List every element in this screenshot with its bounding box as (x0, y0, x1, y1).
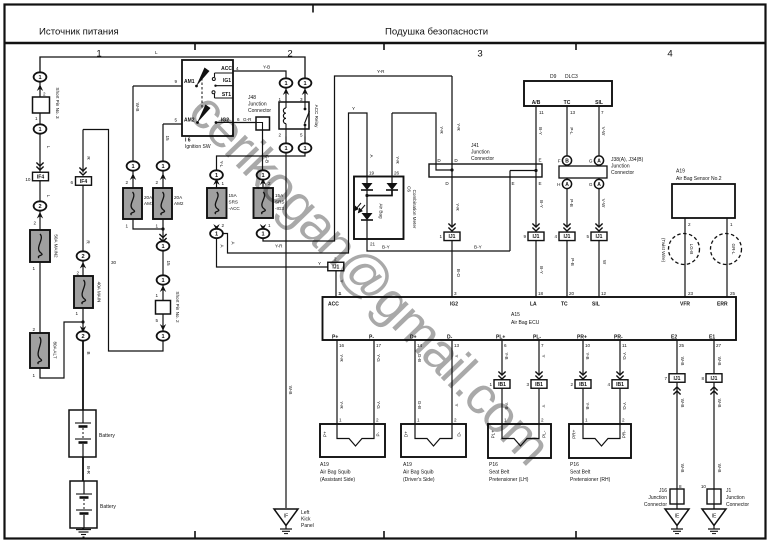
wire net E branch inside J41 (510, 170, 536, 172)
wire node 1 to node 1 above Short Pin No.2 (162, 251, 164, 276)
svg-text:80A ALT: 80A ALT (53, 341, 58, 358)
chevron below IJ1 E1 (710, 387, 717, 395)
connector IJ1 on E2 wire (664, 374, 685, 383)
svg-text:Air Bag: Air Bag (379, 203, 384, 219)
wire P-B: junction to IJ1 (566, 189, 568, 228)
svg-text:D9: D9 (550, 74, 557, 80)
svg-text:Connector: Connector (726, 502, 749, 508)
svg-text:4: 4 (554, 234, 557, 239)
svg-text:Junction: Junction (726, 495, 745, 501)
svg-text:Connector: Connector (644, 502, 667, 508)
combination meter C6 box (354, 177, 404, 240)
svg-text:Y-B: Y-B (504, 352, 509, 359)
ECU bottom pin labels (332, 335, 715, 341)
wire Y: IJ1 to ECU pin ACC (335, 271, 337, 297)
svg-text:10: 10 (701, 484, 707, 489)
arrow into relay node bottom left (283, 144, 289, 151)
svg-text:Y-R: Y-R (275, 244, 283, 249)
svg-text:Y-R: Y-R (439, 126, 444, 134)
wire W-B: IJ1 to ground via J1 (713, 382, 715, 509)
wire 20A AM1 pin 1 to junction (133, 219, 163, 229)
ignition switch I6 box (182, 60, 233, 136)
air bag sensor No.2 box (672, 184, 735, 218)
svg-text:P-L: P-L (569, 127, 574, 135)
wire 20A AM2 pin 1 down to node 1 (162, 219, 164, 242)
svg-text:V-W: V-W (601, 127, 606, 136)
node 1 above 20A AM1 (127, 161, 140, 170)
svg-text:C6: C6 (407, 186, 412, 192)
svg-text:B-R: B-R (86, 466, 91, 475)
wire W-B: ECU E2 to IJ1 (676, 340, 678, 374)
arrow into node SRS-ACC (213, 178, 219, 185)
svg-text:2: 2 (81, 254, 84, 260)
svg-text:L: L (155, 50, 158, 55)
svg-text:8: 8 (679, 484, 682, 489)
fusible link 80A ALT (30, 333, 49, 368)
Short Pin No.2 box (156, 301, 171, 315)
svg-text:Seat Belt: Seat Belt (489, 470, 510, 476)
J41 node letters (437, 158, 541, 187)
connector IJ1 on SIL wire (586, 232, 607, 241)
svg-text:1: 1 (96, 49, 101, 60)
arrow into node 1 AM1 (130, 173, 136, 180)
svg-text:IJ1: IJ1 (674, 376, 681, 382)
wire L: node 1 top-left to ACC relay pin 3 (40, 57, 305, 79)
air bag ECU A15 box (323, 297, 737, 340)
svg-text:E1: E1 (709, 335, 715, 341)
svg-text:W-B: W-B (680, 357, 685, 366)
wire GR-L: air bag sensor pin 1 to ECU pin ERR (726, 218, 728, 297)
wire through J16 (676, 489, 678, 504)
svg-text:-ACC: -ACC (229, 206, 241, 211)
svg-text:Air Bag Squib: Air Bag Squib (320, 470, 351, 476)
svg-text:7: 7 (541, 343, 544, 348)
wire relay node to ACC relay contact pin 3 (304, 88, 306, 96)
svg-text:A: A (597, 182, 601, 188)
svg-text:1: 1 (161, 334, 164, 340)
svg-text:6: 6 (504, 343, 507, 348)
svg-text:27: 27 (716, 343, 722, 348)
svg-text:Short Pin No. 3: Short Pin No. 3 (55, 87, 60, 119)
wire Y-B: ECU PL+ to IB1 (501, 340, 503, 376)
svg-text:IJ1: IJ1 (596, 234, 603, 240)
svg-text:1: 1 (222, 181, 225, 186)
ECU bottom pin numbers (339, 343, 722, 348)
wire ACC relay pin 5 to node (304, 137, 306, 144)
svg-text:PL-: PL- (533, 335, 541, 341)
wire Y-G: IB1 to pretensioner RH (619, 384, 621, 424)
wire Short Pin No.2 to node 1 (162, 314, 164, 332)
chevron into IJ1 IG2 (448, 224, 455, 232)
svg-text:P16: P16 (570, 462, 579, 468)
svg-text:1: 1 (131, 164, 134, 170)
node 1 below 15A SRS-ACC (210, 229, 223, 238)
svg-text:20: 20 (569, 291, 575, 296)
svg-text:9: 9 (523, 234, 526, 239)
svg-text:Y-R: Y-R (339, 401, 344, 409)
svg-text:Junction: Junction (248, 102, 267, 108)
svg-text:AM2: AM2 (174, 201, 184, 206)
svg-text:Junction: Junction (648, 495, 667, 501)
svg-text:Подушка безопасности: Подушка безопасности (385, 27, 488, 38)
svg-text:Y-B: Y-B (263, 65, 270, 70)
node 2 left column (34, 201, 47, 210)
wire B-Y: DLC3 A/B through J41 to IJ1 (535, 106, 537, 228)
svg-text:IE: IE (675, 514, 680, 520)
wire W-B: IJ1 to ground via J16 (676, 382, 678, 509)
connector IJ1 on E1 wire (701, 374, 722, 383)
svg-text:Y-R: Y-R (377, 69, 385, 74)
DLC3 pin numbers (539, 110, 604, 115)
svg-text:4: 4 (236, 66, 239, 71)
svg-text:Kick: Kick (301, 517, 311, 523)
svg-text:40A MAIN: 40A MAIN (97, 282, 102, 303)
svg-text:2: 2 (222, 223, 225, 228)
svg-text:P-B: P-B (570, 258, 575, 266)
wire AM2 horizontal into ignition switch (163, 123, 182, 125)
junction dot net E in J41 (534, 169, 537, 172)
svg-text:Seat Belt: Seat Belt (570, 470, 591, 476)
svg-text:A/B: A/B (532, 100, 541, 106)
svg-text:1: 1 (439, 234, 442, 239)
svg-text:B-Y: B-Y (474, 245, 482, 250)
wire 50A MAIN2 to 80A ALT (39, 262, 41, 333)
ECU top pin numbers (339, 291, 607, 296)
wire through J38 junction connector right (598, 165, 600, 180)
wire AM1 horizontal into ignition switch (133, 85, 182, 87)
arrow into node SRS-IG3 (260, 178, 266, 185)
svg-text:23: 23 (688, 291, 694, 296)
node 1 short pin column top (157, 241, 170, 250)
svg-text:PR+: PR+ (572, 429, 577, 438)
wire lamp to meter pin 21 (366, 220, 368, 239)
svg-text:11: 11 (622, 343, 627, 348)
chevron into IJ1 SIL (595, 224, 602, 232)
svg-text:4: 4 (607, 382, 610, 387)
svg-text:2: 2 (454, 418, 457, 423)
svg-text:GR-L: GR-L (731, 244, 736, 255)
svg-text:Y-R: Y-R (339, 354, 344, 362)
seat belt pretensioner LH box (488, 424, 551, 458)
air bag warning lamp arrows (355, 203, 366, 213)
svg-text:Air Bag ECU: Air Bag ECU (511, 320, 540, 326)
svg-text:1: 1 (268, 223, 271, 228)
wire IF4 no.2 to node 2 (82, 186, 84, 252)
chevron into IB1 PR+ (579, 372, 586, 380)
chevron into node 1 (159, 234, 166, 242)
svg-text:15: 15 (165, 135, 170, 141)
svg-text:17: 17 (376, 343, 382, 348)
wire node 2 to 40A MAIN (82, 261, 84, 277)
svg-text:(Assistant Side): (Assistant Side) (320, 477, 355, 483)
svg-text:9: 9 (174, 79, 177, 84)
svg-text:Y-G: Y-G (622, 352, 627, 360)
svg-text:1: 1 (338, 291, 341, 296)
air bag lamp diode (361, 213, 373, 220)
svg-text:1: 1 (278, 97, 281, 102)
svg-text:2: 2 (688, 222, 691, 227)
svg-text:26: 26 (394, 171, 400, 176)
svg-text:Connector: Connector (471, 156, 494, 162)
ground IE right (702, 509, 726, 534)
wire node 1 to Short Pin No.2 (162, 285, 164, 301)
svg-text:Pretensioner (RH): Pretensioner (RH) (570, 477, 611, 483)
svg-text:Battery: Battery (99, 433, 115, 439)
svg-text:2: 2 (125, 180, 128, 185)
svg-text:1: 1 (303, 146, 306, 152)
svg-text:3: 3 (300, 97, 303, 102)
wire node 1 to fuse IF4 no.1 (39, 134, 41, 172)
svg-text:1: 1 (155, 293, 158, 298)
arrow into relay node top left (283, 88, 289, 95)
svg-text:A: A (565, 182, 569, 188)
junction 40A MAIN / ALT (81, 320, 84, 323)
svg-text:2: 2 (278, 133, 281, 138)
junction AM1/AM2 outputs (161, 227, 164, 230)
fuse 20A AM1 (123, 188, 142, 219)
svg-text:Y-R: Y-R (395, 156, 400, 164)
node 1 above short pin no.2 (157, 275, 170, 284)
svg-text:A15: A15 (511, 312, 520, 318)
connector IJ1 on ACC wire (328, 262, 344, 271)
twisted pair circles (669, 234, 742, 265)
svg-text:I 6: I 6 (185, 138, 191, 144)
svg-text:SIL: SIL (592, 302, 600, 308)
svg-text:5: 5 (155, 318, 158, 323)
svg-text:PR+: PR+ (577, 335, 587, 341)
svg-text:2: 2 (38, 204, 41, 210)
chevron into IB1 PR- (616, 372, 623, 380)
svg-text:IJ1: IJ1 (533, 234, 540, 240)
svg-text:B-Y: B-Y (539, 266, 544, 274)
svg-text:J41: J41 (471, 143, 479, 149)
ACC relay coil (283, 95, 286, 137)
svg-text:IJ1: IJ1 (449, 234, 456, 240)
svg-text:1: 1 (161, 164, 164, 170)
svg-text:1: 1 (339, 418, 342, 423)
svg-text:1: 1 (32, 373, 35, 378)
ACC relay box (279, 102, 309, 129)
wire V-W: DLC3 SIL down to junction connector (598, 106, 600, 156)
chevron into IF4 no.2 (79, 168, 86, 176)
arrow into node 1 below short pin (160, 324, 166, 331)
wire node1 to Short Pin No.3 (39, 82, 41, 98)
svg-text:J38(A), J34(B): J38(A), J34(B) (611, 157, 644, 163)
air bag squib driver side box (401, 424, 466, 457)
wire W: IJ1 to ECU pin SIL (598, 241, 600, 298)
svg-text:1: 1 (155, 224, 158, 229)
wire 30: over and down to Short Pin No.2 node (83, 130, 163, 352)
svg-text:Pretensioner (LH): Pretensioner (LH) (489, 477, 529, 483)
wire node 1 to fuse 15A SRS-IG3 (262, 180, 264, 189)
svg-text:J16: J16 (659, 488, 667, 494)
node 1 above 20A AM2 (157, 161, 170, 170)
Short Pin No.3 box (33, 97, 50, 113)
svg-text:IB1: IB1 (535, 382, 543, 388)
svg-text:(Twist Wire): (Twist Wire) (661, 238, 666, 263)
J1 junction connector box (707, 489, 721, 504)
node 1 relay top right (299, 78, 312, 87)
svg-text:IF4: IF4 (80, 179, 87, 185)
svg-text:A19: A19 (403, 462, 412, 468)
wire Y: ECU D- to air bag squib driver (451, 340, 453, 424)
svg-text:Y-B: Y-B (585, 402, 590, 409)
svg-text:ACC: ACC (221, 66, 232, 72)
node 1 below short pin (34, 124, 47, 133)
link between diode branches (367, 190, 392, 196)
wire Y-G: ECU P- to air bag squib assistant (373, 340, 375, 424)
wire Y-B: IB1 to pretensioner LH (501, 384, 503, 424)
diode in meter pin 26 branch (386, 183, 398, 190)
wire G-R: ignition IG2 to J48 junction connector (233, 122, 256, 124)
svg-text:1: 1 (35, 116, 38, 121)
svg-text:Air Bag Squib: Air Bag Squib (403, 470, 434, 476)
svg-text:W-B: W-B (135, 103, 140, 112)
wire node 1 to fuse 20A AM1 (132, 171, 134, 189)
wire inside J48 (256, 123, 263, 131)
svg-text:B-Y: B-Y (539, 200, 544, 208)
wire Y-R: combination meter pin 26 up (391, 113, 393, 176)
node 1 relay bottom left (280, 143, 293, 152)
fuse 15A SRS-ACC (207, 188, 227, 218)
wire W-B: ECU E1 to IJ1 (713, 340, 715, 374)
svg-text:D-: D- (457, 431, 462, 436)
air bag squib assistant side box (320, 424, 385, 457)
svg-text:J1: J1 (726, 488, 732, 494)
svg-text:G: G (589, 182, 593, 187)
wire E: J41 down to B-Y horizontal (509, 171, 511, 252)
svg-text:1: 1 (161, 278, 164, 284)
svg-text:Left: Left (301, 510, 310, 516)
svg-text:15: 15 (166, 260, 171, 266)
svg-text:1: 1 (215, 173, 218, 179)
wire diode to air bag lamp (366, 190, 368, 213)
svg-text:Short Pin No. 2: Short Pin No. 2 (175, 291, 180, 323)
J48 junction connector box (256, 117, 270, 130)
wire Y-B: ECU P+ to air bag squib assistant (336, 340, 338, 424)
svg-text:W-B: W-B (680, 399, 685, 408)
svg-text:2: 2 (155, 180, 158, 185)
fuse 20A AM2 (153, 188, 172, 219)
wire Y-B: IB1 to pretensioner RH (582, 384, 584, 424)
wire Y-R: down to connector IJ1 (IG2) (451, 76, 453, 228)
svg-text:D+: D+ (404, 431, 409, 437)
wire node 1 to fuse 20A AM2 (162, 171, 164, 189)
svg-text:Y-R: Y-R (456, 123, 461, 131)
svg-text:E: E (511, 181, 514, 186)
svg-text:20A: 20A (174, 195, 183, 200)
wire meter pin 19 to diode (366, 177, 368, 184)
svg-text:10: 10 (25, 177, 31, 182)
svg-text:12: 12 (601, 291, 607, 296)
arrow into node 1 AM2 (160, 173, 166, 180)
arrow into node below SRS-IG3 (260, 224, 266, 231)
wire 40A MAIN pin 1 to node 2 via junction (82, 308, 84, 332)
svg-text:SRS: SRS (229, 200, 238, 205)
arrow into relay node bottom right (302, 144, 308, 151)
svg-text:Air Bag Sensor No.2: Air Bag Sensor No.2 (676, 176, 722, 182)
svg-text:11: 11 (539, 110, 544, 115)
wire W-B: relay coil to left kick panel ground (285, 153, 287, 509)
ECU top pin labels (328, 302, 728, 308)
connector IJ1 on IG2 wire (439, 232, 460, 241)
wire Y: IB1 to pretensioner LH (538, 384, 540, 424)
arrow into node 1 (37, 84, 43, 91)
ACC relay contact (304, 95, 310, 137)
svg-text:1: 1 (38, 75, 41, 81)
wire P-L: DLC3 TC down to junction connector (566, 106, 568, 156)
wire B-Y: IJ1 to ECU pin LA (535, 241, 537, 298)
svg-text:Junction: Junction (471, 150, 490, 156)
svg-text:Y-G: Y-G (622, 402, 627, 410)
wire through J1 (713, 489, 715, 504)
svg-text:IG1: IG1 (223, 78, 231, 84)
svg-text:TC: TC (564, 100, 571, 106)
svg-text:25: 25 (730, 291, 736, 296)
wire meter pin 26 to diode (391, 177, 393, 184)
svg-text:18: 18 (538, 291, 544, 296)
svg-text:5: 5 (586, 234, 589, 239)
wire B: node 2 to battery (82, 341, 84, 411)
svg-text:P16: P16 (489, 462, 498, 468)
svg-text:2: 2 (287, 49, 292, 60)
svg-text:L: L (46, 146, 51, 149)
DLC3 pin labels (532, 100, 603, 106)
svg-text:W: W (602, 260, 607, 265)
wire relay node to ACC relay coil pin 1 (285, 88, 287, 96)
wire AM1: ignition switch to node 1 (132, 86, 134, 162)
chevron into IB1 PL- (535, 372, 542, 380)
svg-text:20A: 20A (144, 195, 153, 200)
wire through J38 junction connector left (566, 165, 568, 180)
connector IB1 on PR- wire (607, 380, 628, 389)
svg-text:W-B: W-B (680, 464, 685, 473)
svg-text:1: 1 (161, 244, 164, 250)
svg-text:E: E (538, 181, 541, 186)
svg-text:2: 2 (81, 334, 84, 340)
svg-text:PL+: PL+ (496, 335, 505, 341)
svg-text:4: 4 (667, 49, 673, 60)
svg-text:H: H (557, 182, 560, 187)
connector IB1 on PL+ wire (489, 380, 510, 389)
svg-text:P+: P+ (323, 431, 328, 437)
svg-text:P-B: P-B (569, 199, 574, 207)
svg-text:2: 2 (32, 327, 35, 332)
svg-text:Connector: Connector (611, 170, 634, 176)
ACC relay pins (278, 97, 303, 138)
chevron below IJ1 E2 (673, 387, 680, 395)
wire Y-B: ECU PR+ to IB1 (582, 340, 584, 376)
svg-text:1: 1 (75, 311, 78, 316)
connector IJ1 on TC wire (554, 232, 575, 241)
svg-text:Y-B: Y-B (585, 352, 590, 359)
svg-text:(Driver's Side): (Driver's Side) (403, 477, 435, 483)
svg-text:W-B: W-B (717, 357, 722, 366)
wire Y-B: ignition ACC to relay node (233, 71, 286, 79)
svg-text:19: 19 (369, 171, 375, 176)
svg-text:2: 2 (33, 221, 36, 226)
svg-text:G: G (589, 159, 593, 164)
node 1 below short pin no.2 (157, 331, 170, 340)
J16 junction connector box (670, 489, 684, 504)
wire IF4 no.1 to node 2 (39, 181, 41, 202)
wire Y: ECU PL- to IB1 (538, 340, 540, 376)
diode in meter pin 19 branch (361, 183, 373, 190)
svg-text:16: 16 (339, 343, 345, 348)
wire battery to ground (82, 528, 84, 530)
wire LG-B: air bag sensor pin 2 to ECU pin VFR (684, 218, 686, 297)
svg-text:Junction: Junction (611, 164, 630, 170)
